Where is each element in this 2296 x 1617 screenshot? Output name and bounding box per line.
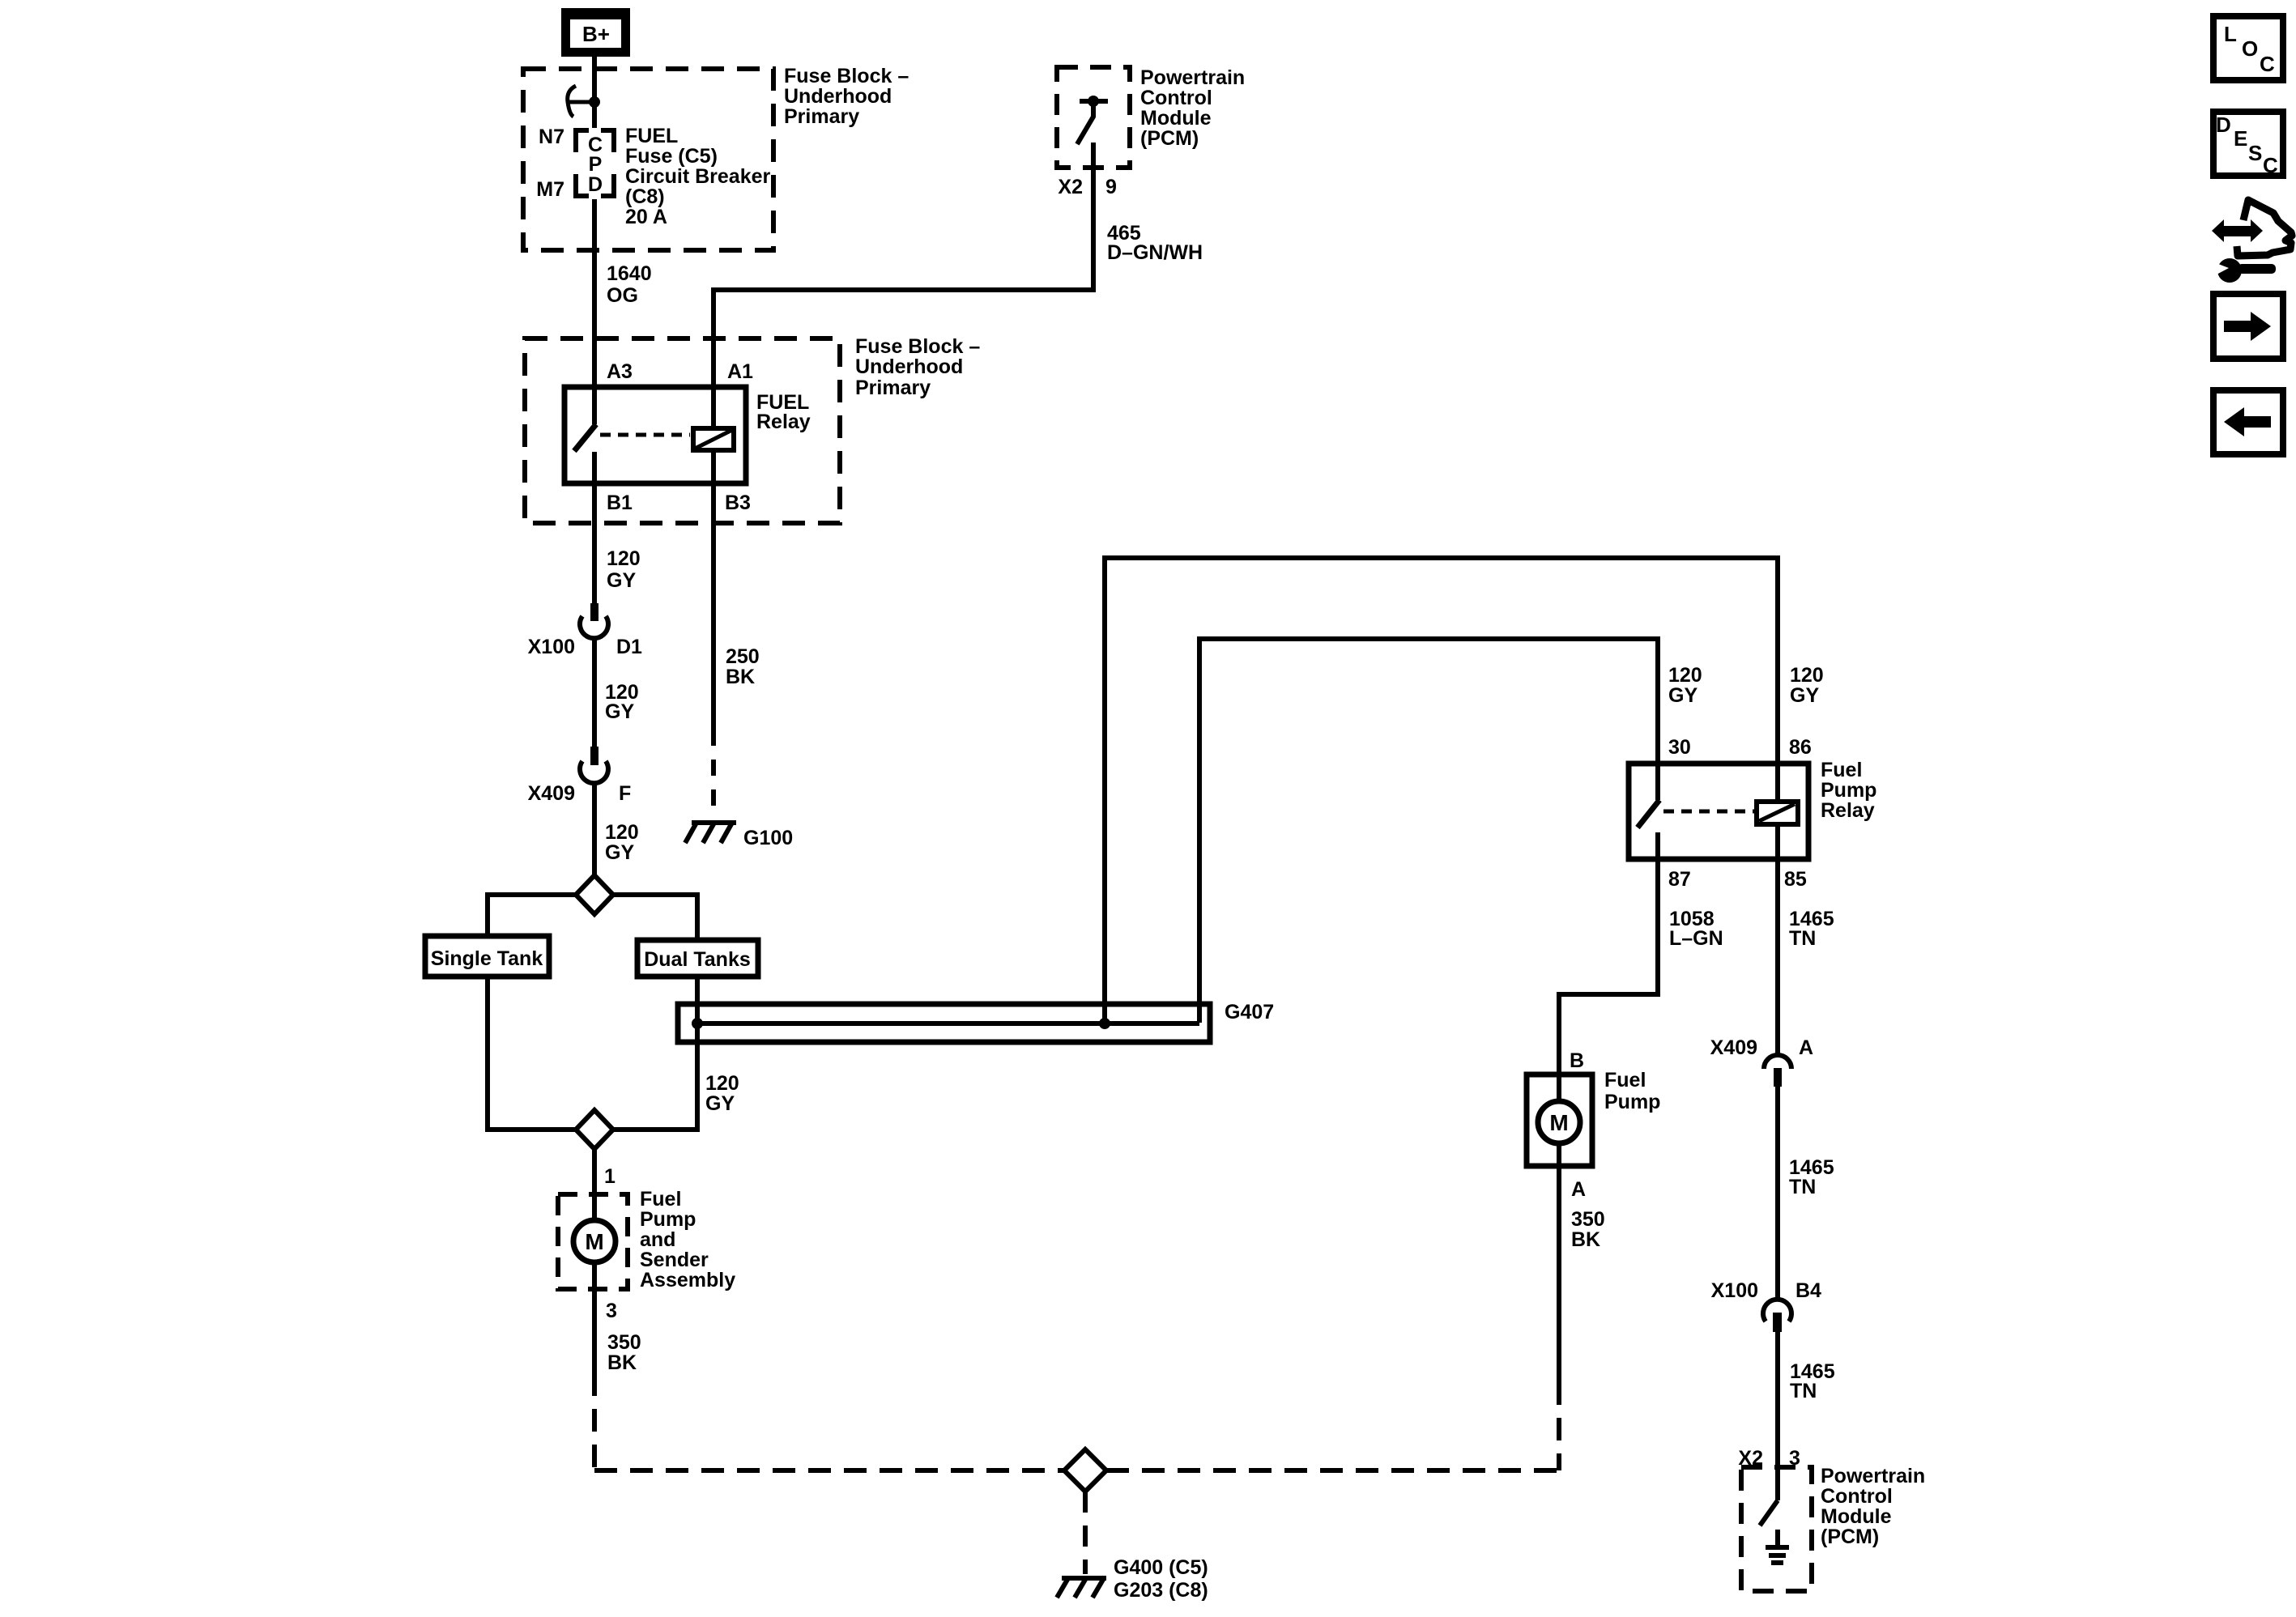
wire Single Tank down [488,977,576,1130]
svg-text:Module: Module [1140,107,1212,130]
svg-text:O: O [2242,36,2258,61]
svg-text:M7: M7 [536,178,564,201]
svg-text:(PCM): (PCM) [1821,1526,1879,1548]
svg-text:GY: GY [605,700,634,723]
svg-text:86: 86 [1789,736,1812,759]
svg-text:E: E [2234,126,2247,151]
svg-text:120: 120 [607,547,641,570]
svg-text:87: 87 [1668,868,1691,891]
svg-text:Relay: Relay [756,411,811,433]
svg-text:Control: Control [1821,1485,1893,1508]
relay 1 coil [693,428,734,450]
wire to Dual Tanks branch [613,895,697,940]
vehicle data icon (double arrow, car outline, wrench) [2212,219,2263,242]
svg-text:C: C [2260,52,2275,76]
svg-text:TN: TN [1789,1176,1816,1198]
wire 120 GY splice to fuel pump relay 86 (outer run) [1105,558,1778,1023]
option splice diamond (top) [576,875,613,914]
svg-text:A1: A1 [727,360,753,383]
splice pack G407 [678,1004,1210,1042]
svg-text:Fuel: Fuel [1604,1069,1646,1091]
motor M1 fuel pump sender [573,1220,616,1262]
FUEL fuse / circuit breaker element (CPD brackets) [576,130,589,152]
svg-text:350: 350 [607,1331,641,1354]
svg-text:BK: BK [726,666,755,688]
svg-text:M: M [1549,1110,1568,1135]
svg-text:Pump: Pump [1604,1091,1660,1113]
relay 1 actuation dashed link [600,433,690,437]
svg-text:OG: OG [607,284,638,307]
option splice diamond (bottom) [576,1110,613,1149]
svg-text:Primary: Primary [784,105,859,128]
junction dot G407 left [692,1018,703,1029]
FUEL relay U1 [564,387,746,483]
svg-text:B4: B4 [1795,1279,1821,1302]
svg-text:X409: X409 [1710,1036,1757,1059]
svg-text:TN: TN [1790,1380,1817,1402]
svg-text:Circuit Breaker: Circuit Breaker [625,165,771,188]
svg-text:Relay: Relay [1821,799,1875,822]
svg-text:85: 85 [1784,868,1807,891]
fuel pump and sender assembly (dashed box) [558,1194,628,1289]
wire B+ to circuit breaker [592,57,597,128]
wire to Single Tank branch [488,895,576,936]
inline connector X100 pin D1 [590,603,598,621]
svg-text:Underhood: Underhood [784,85,892,108]
svg-text:Underhood: Underhood [855,355,963,378]
svg-text:(PCM): (PCM) [1140,127,1199,150]
LOC icon box [2213,16,2283,80]
relay 2 coil wires 86/85 [1775,764,1780,802]
svg-text:X409: X409 [528,782,575,805]
svg-text:Sender: Sender [640,1249,709,1271]
svg-text:D1: D1 [616,636,642,658]
svg-text:Powertrain: Powertrain [1821,1465,1925,1487]
junction dot G407 mid [1099,1018,1110,1029]
PCM internal ground [1775,1530,1780,1547]
svg-text:GY: GY [1790,684,1819,707]
svg-text:120: 120 [705,1072,739,1095]
svg-text:B: B [1570,1049,1584,1072]
svg-text:BK: BK [607,1351,637,1374]
svg-text:Assembly: Assembly [640,1269,735,1291]
svg-text:GY: GY [607,569,636,592]
svg-text:M: M [585,1229,603,1254]
svg-text:X100: X100 [528,636,575,658]
ground G400 / G203 [1062,1576,1106,1581]
svg-text:Fuse (C5): Fuse (C5) [625,145,718,168]
wire 1465 TN X100 B4 to PCM X2-3 [1775,1332,1780,1500]
wire 1465 TN X409 A to X100 B4 [1775,1087,1780,1299]
svg-text:TN: TN [1789,927,1816,950]
svg-text:Pump: Pump [640,1208,696,1231]
inline connector X100 pin B4 [1763,1300,1791,1321]
dashed stub to ground [1083,1491,1088,1574]
svg-text:Powertrain: Powertrain [1140,66,1245,89]
svg-text:Fuse Block –: Fuse Block – [784,65,909,87]
svg-text:Dual Tanks: Dual Tanks [644,948,751,971]
svg-text:Pump: Pump [1821,779,1876,802]
svg-text:C: C [2263,153,2278,177]
svg-text:Fuel: Fuel [1821,759,1862,781]
svg-text:(C8): (C8) [625,185,665,208]
svg-text:S: S [2248,141,2262,165]
PCM low side driver switch [1760,1500,1778,1526]
wire 120 GY X409 to splice diamond [592,785,597,875]
svg-text:1640: 1640 [607,262,652,285]
powertrain control module box (bottom, dashed) [1741,1467,1812,1591]
circuit breaker hook symbol [569,100,594,104]
junction dot at breaker tap [589,96,600,108]
svg-text:F: F [619,782,631,805]
wire 120 GY splice to fuel pump relay 30 (inner run) [1199,639,1658,1023]
PCM driver switch symbol [1080,99,1108,104]
svg-text:Module: Module [1821,1505,1892,1528]
svg-text:B3: B3 [725,491,751,514]
svg-text:20 A: 20 A [625,206,667,228]
svg-text:1: 1 [604,1165,616,1188]
svg-text:30: 30 [1668,736,1691,759]
svg-text:A: A [1799,1036,1813,1059]
B+ battery terminal [561,8,630,57]
node X2 pin 9 [1058,176,1117,198]
relay 2 coil [1757,802,1798,824]
svg-text:9: 9 [1105,176,1117,198]
inline connector X409 pin F [590,747,598,765]
fuse block underhood primary box 2 (dashed) [525,338,840,523]
relay 1 switch contact [592,387,597,424]
svg-text:GY: GY [1668,684,1698,707]
svg-text:FUEL: FUEL [625,125,678,147]
wire 120 GY X100 to X409 [592,640,597,747]
wire 465 D-GN/WH from PCM X2-9 to fuel relay A1 [714,168,1093,387]
svg-text:L: L [2224,22,2237,46]
svg-text:X100: X100 [1711,1279,1758,1302]
ground splice diamond [1064,1449,1106,1491]
wire 350 BK fuel pump A to ground run [1557,1166,1561,1405]
svg-text:B1: B1 [607,491,633,514]
ground G100 [692,820,736,825]
svg-text:120: 120 [1790,664,1824,687]
Dual Tanks option box [637,940,758,977]
back navigation icon [2213,390,2283,454]
relay 1 coil wires A1/B3 [711,387,716,428]
svg-text:BK: BK [1571,1228,1600,1251]
wire 1465 TN relay 85 to X409 A [1775,859,1780,1055]
svg-text:D–GN/WH: D–GN/WH [1107,241,1203,264]
wire 250 BK relay B3 to G100 [711,483,716,746]
motor M2 fuel pump [1557,1074,1561,1101]
svg-text:250: 250 [726,645,760,668]
svg-text:B+: B+ [582,22,610,46]
wire diamond to fuel pump sender pin 1 [592,1149,597,1220]
svg-text:Control: Control [1140,87,1212,109]
svg-text:L–GN: L–GN [1669,927,1723,950]
inline connector X409 pin A [1764,1055,1791,1069]
Single Tank option box [425,936,549,977]
svg-text:P: P [589,153,603,176]
wire 1640 OG fuse to fuel relay A3 [592,199,597,389]
dashed ground run from sender [592,1396,597,1470]
svg-text:Fuse Block –: Fuse Block – [855,335,980,358]
svg-text:G203 (C8): G203 (C8) [1114,1579,1208,1602]
fuel pump relay U2 [1629,764,1808,859]
svg-text:G407: G407 [1225,1001,1274,1023]
svg-text:350: 350 [1571,1208,1605,1231]
svg-text:G100: G100 [743,827,793,849]
wire 1058 L-GN relay 87 to fuel pump B [1559,859,1658,1074]
svg-text:D: D [588,173,603,196]
relay 2 switch contact [1655,764,1660,800]
fuel pump box [1527,1074,1592,1166]
svg-text:120: 120 [1668,664,1702,687]
svg-text:N7: N7 [539,126,564,148]
svg-text:X2: X2 [1058,176,1083,198]
DESC icon box [2213,112,2283,176]
powertrain control module box (top, dashed) [1057,67,1130,168]
relay 2 actuation dashed link [1663,810,1754,814]
forward navigation icon [2213,294,2283,359]
svg-text:A3: A3 [607,360,633,383]
svg-text:Fuel: Fuel [640,1188,681,1211]
svg-text:G400 (C5): G400 (C5) [1114,1556,1208,1579]
svg-text:3: 3 [606,1300,617,1322]
svg-text:Primary: Primary [855,377,931,399]
svg-text:D: D [2216,113,2231,137]
svg-text:and: and [640,1228,675,1251]
svg-text:120: 120 [605,821,639,844]
wire 120 GY relay B1 to X100 [592,483,597,603]
wire Dual Tanks down through G407 [613,977,697,1130]
svg-text:A: A [1571,1178,1586,1201]
fuse block underhood primary box 1 (dashed) [523,69,773,250]
svg-text:GY: GY [705,1092,735,1115]
svg-text:GY: GY [605,841,634,864]
wire 350 BK sender pin 3 down [592,1262,597,1289]
svg-text:Single Tank: Single Tank [431,947,543,970]
